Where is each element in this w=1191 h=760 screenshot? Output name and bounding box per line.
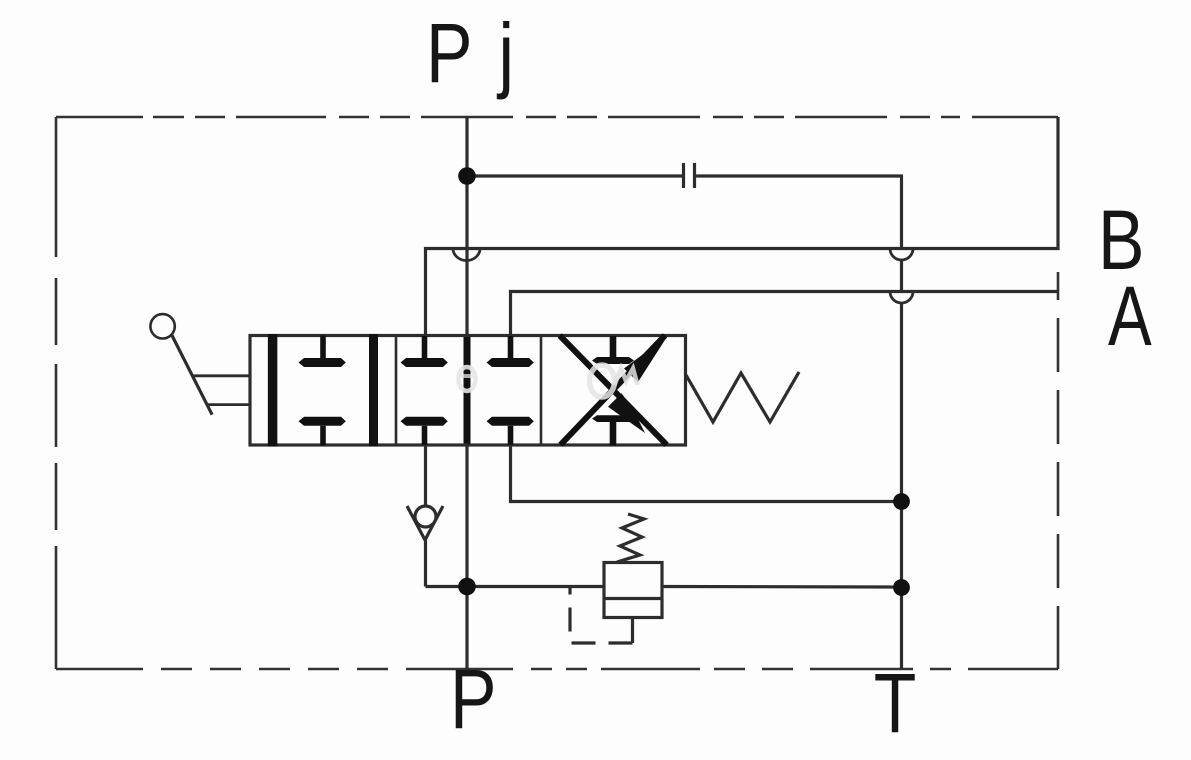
svg-text:j: j xyxy=(497,7,514,101)
svg-text:T: T xyxy=(874,657,917,751)
svg-text:P: P xyxy=(450,653,497,747)
svg-text:A: A xyxy=(1108,269,1152,363)
svg-text:P: P xyxy=(426,7,473,101)
